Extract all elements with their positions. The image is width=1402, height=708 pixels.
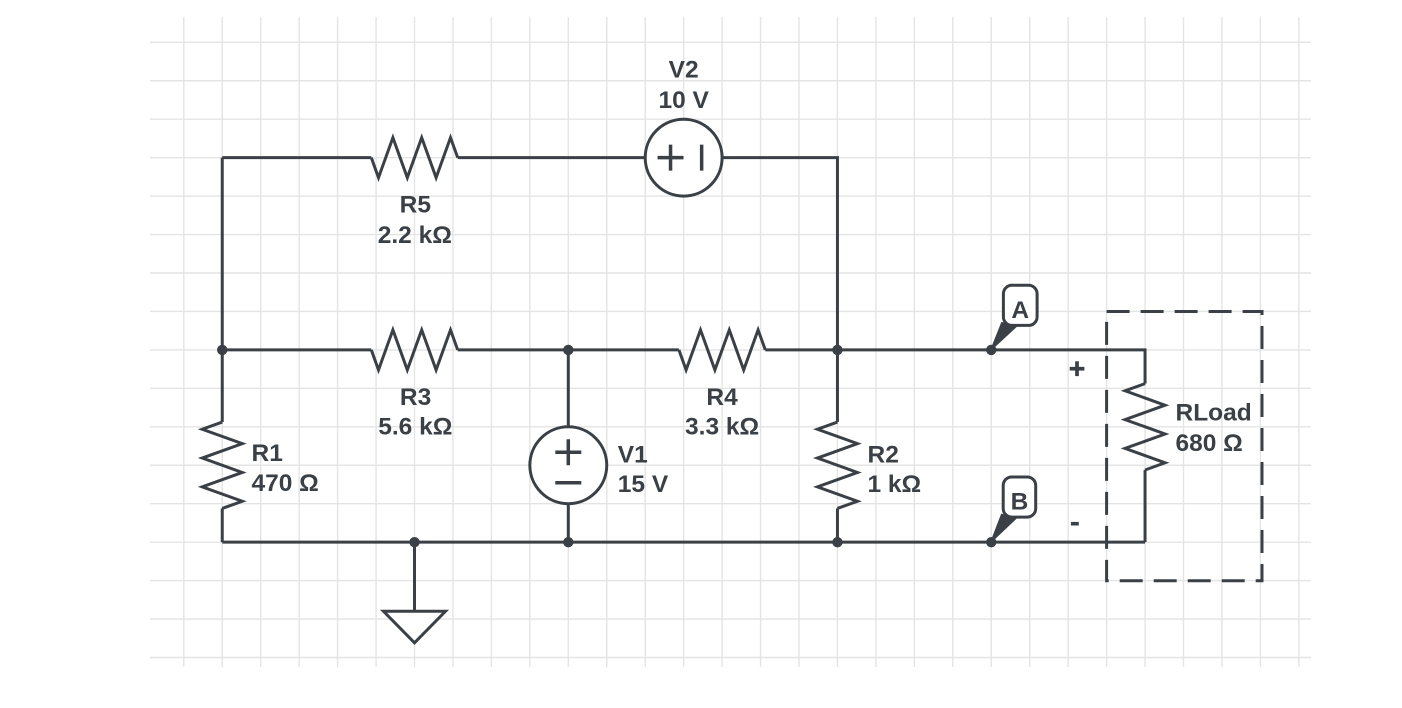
svg-text:2.2 kΩ: 2.2 kΩ xyxy=(378,222,452,249)
svg-text:B: B xyxy=(1011,489,1029,516)
svg-text:5.6 kΩ: 5.6 kΩ xyxy=(378,414,452,441)
svg-text:R2: R2 xyxy=(868,441,899,468)
svg-text:10 V: 10 V xyxy=(658,87,709,114)
svg-text:R3: R3 xyxy=(400,384,431,411)
svg-text:3.3 kΩ: 3.3 kΩ xyxy=(685,414,759,441)
svg-text:1 kΩ: 1 kΩ xyxy=(868,471,922,498)
svg-text:V2: V2 xyxy=(669,56,699,83)
svg-text:15 V: 15 V xyxy=(618,471,669,498)
svg-text:470 Ω: 470 Ω xyxy=(252,470,319,497)
svg-text:R5: R5 xyxy=(400,192,431,219)
svg-text:R1: R1 xyxy=(252,440,283,467)
svg-text:680 Ω: 680 Ω xyxy=(1176,430,1243,457)
svg-text:R4: R4 xyxy=(706,384,738,411)
svg-text:RLoad: RLoad xyxy=(1176,400,1252,427)
svg-text:A: A xyxy=(1011,297,1029,324)
svg-text:V1: V1 xyxy=(618,441,648,468)
